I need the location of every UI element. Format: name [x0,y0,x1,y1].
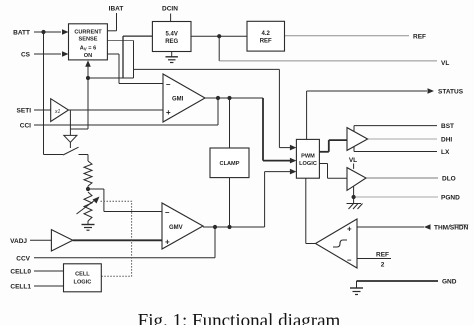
svg-text:VL: VL [441,60,449,67]
svg-text:GMI: GMI [172,97,184,103]
svg-text:CELL: CELL [75,272,90,278]
svg-text:REF: REF [413,33,426,40]
svg-text:REF: REF [376,252,389,259]
svg-text:BST: BST [441,123,454,130]
svg-text:CS: CS [21,52,31,59]
svg-text:REF: REF [260,39,272,45]
svg-text:PGND: PGND [441,195,460,202]
svg-text:–: – [347,256,352,265]
svg-text:5.4V: 5.4V [166,32,178,38]
svg-text:LOGIC: LOGIC [299,161,317,167]
svg-text:VADJ: VADJ [10,238,27,245]
svg-text:GMV: GMV [169,225,183,231]
svg-text:CCV: CCV [16,255,30,262]
svg-text:SENSE: SENSE [79,37,98,43]
svg-text:BATT: BATT [13,30,30,37]
svg-text:STATUS: STATUS [438,89,464,96]
svg-text:Fig. 1: Functional diagram: Fig. 1: Functional diagram [138,311,341,325]
svg-text:THM/SHDN: THM/SHDN [434,225,469,232]
svg-text:REG: REG [165,39,178,45]
svg-text:PWM: PWM [301,154,315,160]
svg-text:VL: VL [349,157,357,164]
svg-text:2: 2 [381,262,385,269]
svg-text:IBAT: IBAT [109,6,124,13]
svg-text:CELL1: CELL1 [10,284,31,291]
svg-text:DHI: DHI [441,137,452,144]
svg-text:–: – [166,80,171,89]
svg-text:ON: ON [84,53,92,59]
svg-text:+: + [166,108,171,117]
svg-text:CLAMP: CLAMP [220,161,240,167]
svg-text:CCI: CCI [20,123,31,130]
svg-text:+: + [165,238,170,247]
svg-text:DCIN: DCIN [162,6,178,13]
svg-text:4.2: 4.2 [262,31,271,37]
svg-text:AV = 6: AV = 6 [80,46,96,52]
svg-text:LOGIC: LOGIC [74,280,92,286]
svg-text:LX: LX [441,149,450,156]
svg-text:+: + [347,225,352,234]
svg-text:x1: x1 [54,109,61,115]
svg-text:SETI: SETI [17,108,32,115]
svg-text:CURRENT: CURRENT [74,30,102,36]
svg-text:–: – [165,208,170,217]
svg-text:GND: GND [442,279,457,286]
svg-text:DLO: DLO [442,176,456,183]
svg-text:CELL0: CELL0 [10,269,31,276]
